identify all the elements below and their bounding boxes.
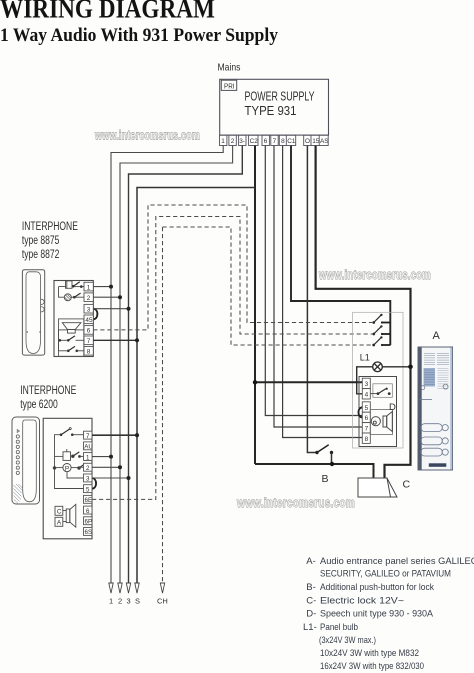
svg-text:L1: L1	[360, 353, 370, 363]
wire 6200 terminal 3 to riser 3	[92, 476, 131, 480]
arrow riser 3	[126, 583, 130, 606]
svg-text:D-: D-	[306, 609, 316, 620]
wire 8875 terminal 7 to riser S	[93, 338, 139, 342]
speech unit terminal 3	[362, 378, 370, 388]
handset drawing interphone 8875	[22, 270, 44, 355]
8875 terminal 8	[84, 347, 93, 356]
svg-text:S: S	[135, 597, 140, 606]
svg-text:Audio entrance panel series GA: Audio entrance panel series GALILEO	[320, 556, 474, 567]
power supply terminal C1	[286, 135, 296, 145]
svg-text:POWER SUPPLY: POWER SUPPLY	[245, 90, 315, 104]
electric lock C	[358, 478, 397, 497]
svg-text:C1: C1	[287, 138, 296, 145]
svg-text:7: 7	[365, 426, 369, 433]
6200 terminal 6S	[84, 528, 93, 537]
speech unit terminal 4	[362, 389, 370, 399]
wire lock line from C2 to lock	[255, 464, 374, 478]
6200 terminal 6	[84, 506, 93, 515]
svg-text:1 Way Audio With 931 Power Sup: 1 Way Audio With 931 Power Supply	[0, 25, 278, 46]
6200 buzzer	[55, 464, 85, 479]
wire 6200 terminal 2 to riser 2	[92, 465, 122, 469]
svg-text:SECURITY, GALILEO or PATAVIUM: SECURITY, GALILEO or PATAVIUM	[320, 569, 451, 580]
6200 terminal 6E	[84, 495, 93, 504]
8875 terminal 7	[84, 336, 93, 345]
power supply terminal 7	[271, 135, 278, 145]
svg-text:O: O	[305, 138, 310, 145]
svg-text:Additional push-button for loc: Additional push-button for lock	[320, 582, 434, 593]
entrance panel internals outline box	[353, 312, 403, 448]
power supply terminal 6	[262, 135, 269, 145]
wire 6200 terminal 1 to riser 1	[92, 455, 113, 459]
svg-text:8: 8	[365, 436, 369, 443]
8875 terminal 1	[84, 282, 93, 291]
svg-text:A: A	[57, 520, 62, 527]
speech unit terminal 6	[362, 412, 370, 422]
subtitle 1 Way Audio With 931 Power Supply	[0, 25, 278, 46]
svg-text:www.intercomsrus.com: www.intercomsrus.com	[318, 268, 431, 282]
speech unit jumper bracket terminals 5-6	[358, 407, 362, 417]
title WIRING DIAGRAM	[0, 0, 215, 24]
call button 3	[372, 336, 390, 346]
interphone 6200 block	[43, 418, 92, 539]
svg-text:www.intercomsrus.com: www.intercomsrus.com	[94, 129, 200, 143]
svg-text:B: B	[322, 473, 329, 485]
svg-text:10x24V 3W with type M832: 10x24V 3W with type M832	[320, 648, 419, 659]
svg-text:6S: 6S	[85, 529, 93, 536]
6200 terminal 5	[84, 485, 93, 494]
6200 hook switch	[60, 428, 84, 436]
wire from terminal 2 staircase to riser 2	[120, 146, 233, 584]
svg-text:3: 3	[365, 381, 369, 388]
6200 terminal 6P	[84, 517, 93, 526]
svg-text:PRI: PRI	[224, 81, 235, 90]
svg-text:(3x24V 3W max.): (3x24V 3W max.)	[319, 635, 376, 646]
wire C1 to call button common	[291, 146, 390, 346]
wire from terminal 3- staircase to riser 3	[129, 146, 243, 584]
svg-text:1: 1	[221, 138, 225, 145]
power supply terminal C2	[249, 135, 259, 145]
svg-text:5: 5	[365, 405, 369, 412]
wire 8875 terminal 2 to riser 2	[93, 295, 122, 299]
svg-text:type 8872: type 8872	[22, 249, 60, 261]
handset drawing interphone 6200	[12, 417, 40, 504]
svg-text:2: 2	[118, 597, 122, 606]
power supply terminal AS	[319, 135, 328, 145]
wire C2 main vertical	[254, 146, 256, 465]
interphone 8875 block	[54, 281, 93, 357]
svg-text:16x24V 3W with type 832/030: 16x24V 3W with type 832/030	[320, 661, 424, 672]
arrow riser 1	[109, 583, 113, 606]
svg-text:WIRING DIAGRAM: WIRING DIAGRAM	[0, 0, 215, 24]
6200 terminal 7	[84, 431, 93, 440]
PRI terminal box	[221, 80, 236, 90]
svg-text:INTERPHONE: INTERPHONE	[20, 385, 76, 397]
svg-text:Electric lock 12V~: Electric lock 12V~	[320, 595, 404, 606]
8875 jumper bracket terminals 3-45	[94, 309, 98, 320]
svg-text:L1-: L1-	[303, 622, 317, 633]
svg-text:7: 7	[87, 338, 91, 345]
8875 internal left rail	[59, 287, 66, 298]
speech unit terminal 7	[362, 423, 370, 433]
8875 speaker	[59, 323, 85, 333]
6200 C box	[55, 506, 63, 515]
dashed wire B from interphone 6200 terminal SE to call button 2	[92, 217, 372, 500]
speech unit microphone	[371, 417, 380, 426]
svg-text:C-: C-	[306, 595, 316, 606]
svg-text:1: 1	[87, 284, 91, 291]
6200 jumper bracket terminals 3-5	[92, 478, 96, 489]
svg-text:6E: 6E	[85, 497, 93, 504]
svg-text:TYPE 931: TYPE 931	[245, 104, 297, 118]
svg-text:3: 3	[127, 597, 131, 606]
svg-text:2: 2	[86, 465, 90, 472]
8875 hook switch plunger	[66, 281, 73, 288]
svg-text:7: 7	[86, 433, 90, 440]
svg-text:8: 8	[87, 349, 91, 356]
svg-text:6: 6	[365, 415, 369, 422]
power supply terminal O	[304, 135, 311, 145]
speech unit switch	[370, 384, 392, 398]
entrance panel A drawing	[418, 347, 453, 470]
6200 A box	[55, 517, 63, 526]
svg-text:45: 45	[85, 317, 93, 324]
wire CH dashed riser	[157, 227, 168, 606]
svg-text:3: 3	[87, 307, 91, 314]
8875 switch terminal 8	[59, 330, 85, 352]
svg-text:6: 6	[87, 328, 91, 335]
6200 call module box	[55, 449, 84, 460]
svg-text:6P: 6P	[85, 519, 93, 526]
svg-text:B-: B-	[306, 582, 316, 593]
svg-text:P: P	[65, 466, 69, 473]
svg-text:15: 15	[312, 138, 320, 145]
6200 terminal AU	[84, 442, 93, 451]
svg-text:2: 2	[231, 138, 235, 145]
speech unit speaker	[383, 412, 392, 432]
svg-text:A: A	[433, 330, 441, 342]
svg-text:7: 7	[273, 138, 277, 145]
svg-text:AU: AU	[84, 444, 93, 451]
push button B	[315, 445, 334, 466]
wire 8875 terminal 1 to riser 1	[93, 285, 113, 289]
wire 6200 terminal 7 to riser S	[92, 433, 139, 437]
svg-text:type 8875: type 8875	[22, 235, 60, 247]
8875 mic switch contact	[73, 293, 81, 298]
label INTERPHONE type 8875 / 8872	[22, 221, 78, 261]
power supply U1 box TYPE 931	[220, 79, 329, 135]
8875 inner speaker box	[59, 319, 84, 356]
svg-text:Mains: Mains	[218, 62, 241, 74]
6200 speaker	[63, 504, 76, 527]
speech unit D box	[359, 377, 397, 447]
label INTERPHONE type 6200	[20, 385, 76, 411]
svg-text:2: 2	[87, 295, 91, 302]
svg-text:Speech unit type 930 - 930A: Speech unit type 930 - 930A	[320, 609, 434, 620]
speech unit mic speaker box	[370, 410, 392, 435]
svg-text:6: 6	[264, 138, 268, 145]
svg-text:C2: C2	[250, 138, 259, 145]
wire C2 branch to riser S	[137, 188, 255, 584]
svg-text:3: 3	[86, 476, 90, 483]
svg-text:C: C	[403, 479, 411, 491]
6200 terminal 3	[84, 474, 93, 483]
svg-text:type 6200: type 6200	[20, 399, 58, 411]
legend line B	[306, 582, 434, 593]
power supply terminal 1	[220, 135, 227, 145]
8875 switch terminal 7	[59, 336, 85, 342]
legend line D	[306, 609, 433, 620]
dashed wire C from CH riser to call button 3	[163, 227, 373, 345]
wire 8 from PSU to speech unit terminal 8	[283, 146, 363, 438]
6200 internal rail to terminal 5	[53, 435, 83, 489]
wire 7 from PSU to speech unit terminal 7	[274, 146, 362, 428]
wire 8875 terminal 3 to riser 3	[93, 307, 130, 311]
8875 terminal 3	[84, 304, 93, 313]
power supply terminal 3-	[239, 135, 246, 145]
legend line C	[306, 595, 404, 606]
svg-text:5: 5	[86, 486, 90, 493]
8875 hook switch contact	[72, 282, 84, 288]
wire lamp right to 15 line	[382, 365, 413, 370]
wire lamp left to speech terminal 4	[357, 367, 373, 394]
legend line L1	[303, 622, 358, 633]
8875 terminal 45	[84, 315, 93, 324]
call button 1	[372, 314, 390, 324]
svg-text:INTERPHONE: INTERPHONE	[22, 221, 78, 233]
8875 terminal 2	[84, 293, 93, 302]
svg-text:3-: 3-	[239, 138, 245, 145]
speech unit terminal 8	[362, 433, 370, 443]
svg-text:1: 1	[86, 454, 90, 461]
svg-text:4: 4	[365, 392, 369, 399]
speech unit terminal 5	[362, 402, 370, 412]
legend line A	[306, 556, 474, 567]
svg-text:AS: AS	[320, 138, 329, 145]
wire C2 branch to speech terminal 3	[253, 380, 362, 384]
power supply terminal 15	[311, 135, 320, 145]
svg-text:A-: A-	[306, 556, 316, 567]
arrow riser S	[135, 583, 140, 606]
wire from terminal 1 staircase to riser 1	[111, 146, 223, 584]
wire 15 to panel lamp and lock	[316, 146, 411, 479]
svg-text:1: 1	[109, 597, 113, 606]
6200 terminal 2	[84, 463, 93, 472]
call button 2	[372, 325, 390, 335]
6200 terminal 1	[84, 453, 93, 462]
dashed wire A from interphone 8875 terminal 6 to call button 1	[93, 205, 372, 330]
wire 6 from PSU to speech unit terminal 6	[265, 146, 362, 416]
power supply terminal 8	[279, 135, 286, 145]
8875 terminal 6	[84, 326, 93, 335]
svg-text:8: 8	[281, 138, 285, 145]
power supply terminal 2	[229, 135, 236, 145]
wire O to lock push-button B	[307, 146, 316, 453]
svg-text:CH: CH	[157, 597, 168, 606]
lamp L1	[373, 362, 383, 372]
svg-text:C: C	[57, 509, 62, 516]
svg-text:Panel bulb: Panel bulb	[320, 622, 358, 633]
svg-text:D: D	[389, 402, 396, 413]
svg-text:www.intercomsrus.com: www.intercomsrus.com	[236, 495, 355, 510]
arrow riser 2	[118, 583, 122, 606]
8875 microphone	[64, 294, 84, 301]
svg-text:6: 6	[86, 508, 90, 515]
